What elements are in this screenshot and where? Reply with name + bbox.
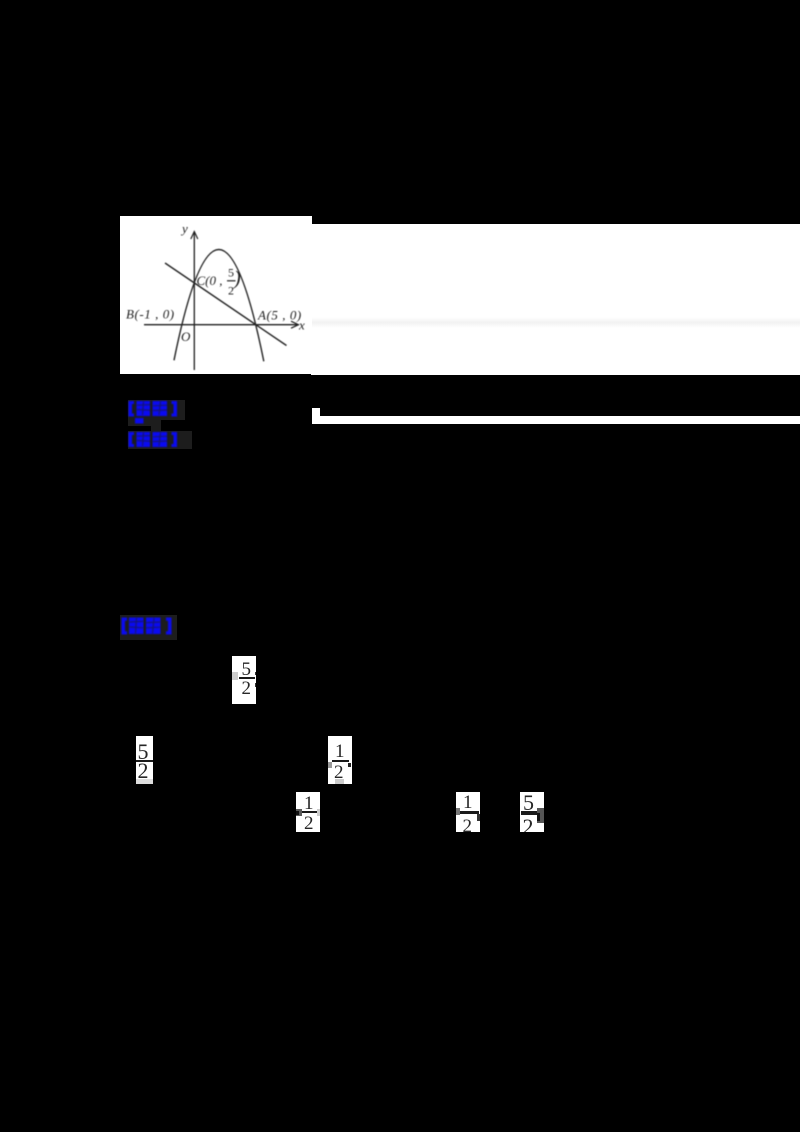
svg-text:A(5 , 0): A(5 , 0) [257, 308, 302, 323]
svg-text:): ) [233, 268, 241, 290]
svg-text:B(-1 , 0): B(-1 , 0) [126, 307, 175, 322]
svg-text:O: O [181, 329, 191, 344]
svg-text:C(0 ,: C(0 , [197, 273, 223, 288]
svg-text:y: y [180, 221, 188, 236]
